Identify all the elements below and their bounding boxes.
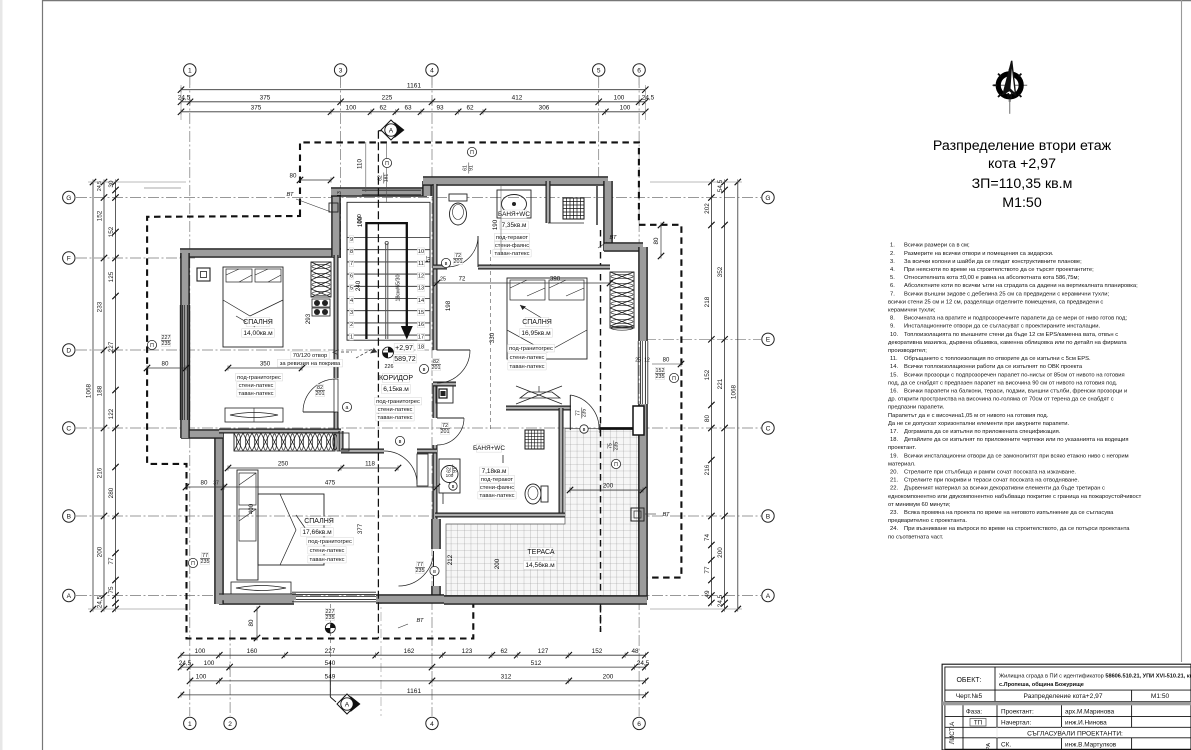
svg-text:200: 200 (717, 547, 724, 558)
svg-text:37: 37 (213, 481, 219, 487)
svg-text:200: 200 (494, 558, 501, 569)
svg-text:227: 227 (325, 648, 336, 655)
svg-text:Начертал:: Начертал: (1001, 720, 1031, 727)
svg-text:A: A (766, 593, 771, 600)
svg-text:9.: 9. (890, 324, 895, 330)
svg-text:72: 72 (442, 423, 448, 429)
svg-text:в: в (452, 484, 455, 490)
svg-text:188: 188 (97, 385, 104, 396)
svg-text:еднокомпонентно или двукомпоне: еднокомпонентно или двукомпонентно набъб… (888, 493, 1142, 500)
svg-text:СЪГЛАСУВАЛИ ПРОЕКТАНТИ:: СЪГЛАСУВАЛИ ПРОЕКТАНТИ: (1027, 730, 1123, 737)
svg-text:13: 13 (337, 191, 343, 197)
svg-text:Всяка промяна на проекта по вр: Всяка промяна на проекта по време на нег… (904, 510, 1114, 516)
svg-text:таван-латекс: таван-латекс (310, 557, 345, 563)
svg-text:Всички инсталационни отвори да: Всички инсталационни отвори да се замоно… (904, 453, 1129, 459)
svg-text:152: 152 (656, 368, 665, 374)
svg-text:4: 4 (430, 67, 434, 74)
svg-text:30: 30 (108, 180, 115, 188)
svg-text:под-гранитогрес: под-гранитогрес (509, 346, 553, 352)
svg-text:всички стени 25 см и 12 см, ра: всички стени 25 см и 12 см, разделящи от… (888, 299, 1103, 305)
svg-text:49: 49 (704, 590, 711, 598)
svg-text:таван-латекс: таван-латекс (495, 251, 530, 257)
svg-text:152: 152 (97, 210, 104, 221)
svg-text:23.: 23. (890, 510, 898, 516)
svg-text:16: 16 (418, 322, 424, 328)
svg-text:24,5: 24,5 (642, 94, 655, 101)
svg-text:6: 6 (350, 273, 353, 279)
svg-text:КОРИДОР: КОРИДОР (379, 375, 413, 382)
svg-text:9: 9 (350, 237, 353, 243)
svg-text:80: 80 (653, 237, 660, 244)
svg-text:ОБЕКТ:: ОБЕКТ: (956, 677, 981, 684)
svg-text:201: 201 (432, 365, 441, 371)
svg-text:керамични тухли;: керамични тухли; (888, 308, 936, 314)
svg-text:4.: 4. (890, 267, 895, 273)
svg-text:Всички прозорци с подпрозорече: Всички прозорци с подпрозоречен парапет … (904, 372, 1125, 378)
svg-text:80: 80 (290, 173, 297, 180)
svg-text:D: D (66, 347, 71, 354)
svg-text:54,5: 54,5 (717, 179, 724, 192)
svg-text:6: 6 (637, 721, 641, 728)
svg-text:Обръщането с топлоизолация по: Обръщането с топлоизолация по отворите д… (904, 356, 1091, 362)
svg-text:72: 72 (455, 253, 461, 259)
svg-text:Височината на вратите и подпро: Височината на вратите и подпрозоречните … (904, 316, 1127, 322)
svg-text:72: 72 (459, 277, 466, 283)
svg-text:250: 250 (278, 461, 289, 468)
svg-text:152: 152 (108, 226, 115, 237)
svg-text:под-гранитогрес: под-гранитогрес (237, 375, 281, 381)
svg-text:10.: 10. (890, 332, 898, 338)
svg-text:РА: РА (986, 743, 992, 750)
svg-text:17: 17 (418, 334, 424, 340)
svg-text:62: 62 (500, 648, 508, 655)
svg-text:Стрелките при стълбища и рампи: Стрелките при стълбища и рампи сочат пос… (904, 470, 1076, 476)
svg-text:235: 235 (582, 409, 588, 418)
svg-text:221: 221 (717, 378, 724, 389)
svg-text:БАНЯ+WC: БАНЯ+WC (498, 211, 530, 218)
svg-text:Парапетът да е с височина1,05: Парапетът да е с височина1,05 м от нивот… (888, 413, 1049, 419)
svg-text:B: B (766, 513, 771, 520)
svg-text:14,56кв.м: 14,56кв.м (525, 562, 555, 569)
svg-text:Дървеният материал за всички д: Дървеният материал за всички декоративни… (904, 486, 1105, 492)
svg-text:B: B (67, 513, 72, 520)
svg-text:160: 160 (247, 648, 258, 655)
svg-text:512: 512 (531, 660, 542, 667)
svg-text:100: 100 (614, 94, 625, 101)
svg-text:П: П (191, 561, 195, 567)
svg-text:100: 100 (195, 648, 206, 655)
svg-text:предпазни парапети.: предпазни парапети. (888, 405, 945, 411)
svg-text:П: П (470, 150, 474, 156)
svg-text:390: 390 (550, 276, 561, 283)
svg-text:Фаза:: Фаза: (966, 709, 982, 716)
svg-text:с.Лропеша, община Божурище: с.Лропеша, община Божурище (999, 681, 1084, 688)
svg-text:227: 227 (162, 335, 171, 341)
svg-text:216: 216 (704, 464, 711, 475)
svg-text:2: 2 (350, 322, 353, 328)
svg-text:21.: 21. (890, 478, 898, 484)
svg-text:227: 227 (326, 609, 335, 615)
svg-text:Размерите на всички отвори и п: Размерите на всички отвори и помещения с… (904, 251, 1054, 257)
svg-text:312: 312 (501, 674, 512, 681)
svg-text:80: 80 (248, 619, 255, 626)
svg-text:235: 235 (416, 568, 425, 574)
svg-text:400: 400 (248, 503, 255, 514)
svg-text:др. открити пространства на ви: др. открити пространства на височина по-… (888, 397, 1114, 403)
svg-text:стени-фаянс: стени-фаянс (495, 243, 529, 249)
svg-text:100: 100 (204, 660, 215, 667)
svg-text:24,5: 24,5 (97, 181, 103, 191)
svg-text:24,5: 24,5 (178, 94, 191, 101)
svg-text:25: 25 (635, 358, 641, 364)
svg-text:Да не се допускат хоризонтални: Да не се допускат хоризонтални елементи … (888, 421, 1070, 427)
svg-text:7,18кв.м: 7,18кв.м (482, 468, 507, 475)
svg-text:24.: 24. (890, 526, 898, 532)
svg-text:инж.В.Мартулков: инж.В.Мартулков (1065, 742, 1117, 749)
svg-text:540: 540 (325, 660, 336, 667)
svg-text:П: П (614, 462, 618, 468)
svg-text:3: 3 (339, 67, 343, 74)
svg-text:218: 218 (704, 296, 711, 307)
svg-text:100: 100 (620, 105, 631, 112)
svg-text:а: а (346, 405, 349, 411)
svg-text:74: 74 (704, 534, 711, 542)
svg-text:293: 293 (305, 313, 312, 324)
svg-text:57: 57 (426, 256, 432, 262)
svg-text:123: 123 (462, 648, 473, 655)
svg-text:в: в (423, 367, 426, 373)
svg-text:7.: 7. (890, 291, 895, 297)
svg-text:Абсолютните коти по всички ъгл: Абсолютните коти по всички ъгли на сград… (904, 283, 1138, 289)
svg-text:арх.М.Маринова: арх.М.Маринова (1065, 709, 1115, 716)
svg-text:93: 93 (436, 105, 444, 112)
svg-text:11.: 11. (890, 356, 898, 362)
svg-text:225: 225 (382, 94, 393, 101)
svg-text:235: 235 (162, 341, 171, 347)
svg-text:1068: 1068 (731, 384, 738, 399)
svg-text:80: 80 (704, 415, 711, 423)
svg-text:280: 280 (108, 487, 115, 498)
svg-text:таван-латекс: таван-латекс (480, 493, 515, 499)
svg-text:БАНЯ+WC: БАНЯ+WC (473, 445, 505, 452)
svg-text:П: П (385, 161, 389, 167)
svg-text:СПАЛНЯ: СПАЛНЯ (243, 319, 273, 326)
svg-text:6,15кв.м: 6,15кв.м (383, 386, 409, 393)
svg-text:201: 201 (441, 429, 450, 435)
svg-text:589,72: 589,72 (394, 356, 416, 363)
svg-text:Разпределение втори етаж: Разпределение втори етаж (933, 138, 1112, 154)
svg-text:декоративна мазилка, дървена о: декоративна мазилка, дървена обшивка, ка… (888, 339, 1127, 346)
svg-text:216: 216 (97, 467, 104, 478)
svg-text:306: 306 (539, 105, 550, 112)
svg-text:7: 7 (350, 261, 353, 267)
svg-text:под-гранитогрес: под-гранитогрес (376, 399, 420, 405)
svg-text:5.: 5. (890, 275, 895, 281)
svg-text:100: 100 (196, 674, 207, 681)
svg-text:под-теракот: под-теракот (481, 477, 514, 483)
svg-text:77: 77 (108, 557, 115, 565)
svg-text:Дограмата да се изпълни по при: Дограмата да се изпълни по приложената с… (904, 429, 1061, 435)
svg-text:1: 1 (188, 67, 192, 74)
svg-text:549: 549 (325, 674, 336, 681)
svg-text:6: 6 (637, 67, 641, 74)
svg-text:12: 12 (644, 358, 650, 364)
svg-text:77: 77 (202, 553, 208, 559)
svg-text:5: 5 (597, 67, 601, 74)
svg-text:181: 181 (384, 174, 390, 183)
svg-text:1.: 1. (890, 243, 895, 249)
svg-text:80: 80 (663, 358, 670, 364)
svg-text:стени-фаянс: стени-фаянс (480, 485, 514, 491)
svg-text:475: 475 (325, 480, 336, 487)
svg-text:стени-латекс: стени-латекс (510, 355, 545, 361)
svg-text:G: G (765, 195, 770, 202)
svg-text:15: 15 (418, 310, 424, 316)
svg-text:235: 235 (614, 442, 620, 451)
svg-text:стени-латекс: стени-латекс (378, 407, 413, 413)
svg-text:ВТ: ВТ (416, 618, 423, 624)
svg-text:1068: 1068 (86, 383, 93, 398)
svg-text:13: 13 (418, 286, 424, 292)
svg-text:18.: 18. (890, 437, 898, 443)
svg-text:75: 75 (108, 586, 115, 594)
svg-text:Детайлите да се изпълнят по пр: Детайлите да се изпълнят по приложените … (904, 436, 1129, 443)
svg-text:82: 82 (317, 385, 323, 391)
svg-text:Всички външни зидове с дебелин: Всички външни зидове с дебелина 25 см са… (904, 291, 1109, 297)
svg-text:152: 152 (704, 369, 711, 380)
svg-text:5: 5 (350, 286, 353, 292)
svg-text:М1:50: М1:50 (1151, 693, 1170, 700)
svg-text:Инсталационните отвори да се с: Инсталационните отвори да се съгласуват … (904, 324, 1101, 330)
svg-text:235: 235 (201, 559, 210, 565)
svg-text:Черт.№5: Черт.№5 (956, 693, 983, 700)
svg-text:в: в (399, 439, 402, 445)
svg-text:91: 91 (469, 165, 475, 171)
svg-text:14,00кв.м: 14,00кв.м (243, 330, 273, 337)
svg-text:в: в (445, 261, 448, 267)
svg-text:При неясноти по време на строи: При неясноти по време на строителството … (904, 267, 1094, 273)
svg-text:ЛИСТ:А: ЛИСТ:А (949, 721, 956, 744)
svg-text:Проектант:: Проектант: (1001, 709, 1034, 716)
svg-text:4: 4 (350, 298, 353, 304)
svg-text:ЗП=110,35 кв.м: ЗП=110,35 кв.м (972, 176, 1073, 192)
svg-text:162: 162 (404, 648, 415, 655)
svg-text:ТЕРАСА: ТЕРАСА (527, 549, 555, 556)
svg-text:202: 202 (704, 203, 711, 214)
svg-text:За всички колони и шайби да се: За всички колони и шайби да се гледат ко… (904, 258, 1082, 265)
svg-text:14: 14 (418, 298, 424, 304)
svg-text:6.: 6. (890, 283, 895, 289)
svg-text:предварително с проектанта.: предварително с проектанта. (888, 518, 967, 524)
svg-text:17,66кв.м: 17,66кв.м (302, 529, 332, 536)
svg-text:СПАЛНЯ: СПАЛНЯ (522, 319, 552, 326)
svg-text:таван-латекс: таван-латекс (378, 415, 413, 421)
svg-text:110: 110 (357, 159, 364, 169)
svg-text:П: П (150, 343, 154, 349)
svg-text:200: 200 (603, 674, 614, 681)
svg-text:Жилищна сграда в ПИ с идентифи: Жилищна сграда в ПИ с идентификатор 5860… (999, 674, 1191, 680)
svg-text:8: 8 (350, 249, 353, 255)
svg-text:2.: 2. (890, 251, 895, 257)
svg-text:198: 198 (445, 300, 452, 311)
svg-text:A: A (67, 593, 72, 600)
svg-text:227: 227 (108, 341, 115, 352)
svg-text:N: N (1007, 91, 1012, 100)
svg-text:ВТ: ВТ (286, 192, 293, 198)
svg-text:П: П (672, 376, 676, 382)
svg-text:10: 10 (418, 249, 424, 255)
svg-text:1161: 1161 (407, 83, 422, 90)
svg-text:стени-латекс: стени-латекс (310, 548, 345, 554)
svg-text:материал.: материал. (888, 461, 916, 467)
svg-text:352: 352 (717, 266, 724, 277)
svg-text:100: 100 (357, 216, 364, 227)
svg-text:190: 190 (492, 219, 499, 230)
svg-text:350: 350 (260, 361, 271, 368)
svg-text:82: 82 (433, 359, 439, 365)
svg-text:22.: 22. (890, 486, 898, 492)
svg-text:проектант.: проектант. (888, 445, 916, 451)
svg-text:91: 91 (453, 467, 459, 473)
svg-text:412: 412 (512, 94, 523, 101)
svg-text:11: 11 (418, 261, 424, 267)
svg-text:1: 1 (350, 334, 353, 340)
svg-text:15.: 15. (890, 372, 898, 378)
svg-text:стени-латекс: стени-латекс (239, 383, 274, 389)
svg-text:по съответната част.: по съответната част. (888, 534, 944, 540)
svg-text:3.: 3. (890, 259, 895, 265)
svg-text:ВТ: ВТ (662, 512, 669, 518)
svg-text:122: 122 (108, 408, 115, 419)
svg-text:12: 12 (418, 273, 424, 279)
svg-text:70/120 отвор: 70/120 отвор (293, 353, 328, 359)
svg-text:При възникване на въпроси по в: При възникване на въпроси по време на ст… (904, 526, 1130, 532)
svg-text:ВТ: ВТ (609, 235, 616, 241)
svg-text:25: 25 (440, 277, 446, 283)
svg-text:G: G (66, 195, 71, 202)
svg-text:20.: 20. (890, 470, 898, 476)
svg-text:А: А (389, 127, 394, 134)
svg-text:235: 235 (326, 615, 335, 621)
svg-text:Относителната кота ±0,00 е рав: Относителната кота ±0,00 е равна на абсо… (904, 275, 1079, 281)
svg-text:таван-латекс: таван-латекс (510, 364, 545, 370)
svg-text:16,95кв.м: 16,95кв.м (521, 330, 551, 337)
svg-text:инж.И.Нинова: инж.И.Нинова (1065, 720, 1107, 727)
svg-text:за ревизия на покрива: за ревизия на покрива (280, 361, 341, 367)
svg-text:80: 80 (201, 480, 208, 487)
svg-text:375: 375 (260, 94, 271, 101)
svg-text:3: 3 (350, 310, 353, 316)
svg-text:E: E (766, 337, 771, 344)
svg-text:1: 1 (188, 721, 192, 728)
svg-text:200: 200 (603, 483, 614, 490)
svg-text:19.: 19. (890, 453, 898, 459)
svg-text:375: 375 (251, 105, 262, 112)
svg-text:7,35кв.м: 7,35кв.м (502, 222, 527, 229)
svg-text:+2,97: +2,97 (395, 345, 413, 352)
svg-text:1161: 1161 (407, 688, 422, 695)
svg-text:212: 212 (447, 554, 454, 565)
svg-text:201: 201 (316, 391, 325, 397)
svg-text:2: 2 (228, 721, 232, 728)
svg-text:таван-латекс: таван-латекс (239, 391, 274, 397)
svg-text:62: 62 (466, 105, 474, 112)
svg-text:16.: 16. (890, 389, 898, 395)
svg-text:200: 200 (97, 546, 104, 557)
svg-text:Всички размери са в см;: Всички размери са в см; (904, 243, 970, 249)
svg-text:127: 127 (538, 648, 549, 655)
svg-text:24,5: 24,5 (97, 595, 104, 608)
svg-text:17.: 17. (890, 429, 898, 435)
svg-text:C: C (766, 425, 771, 432)
svg-text:СК.: СК. (1001, 742, 1011, 749)
svg-text:F: F (67, 255, 71, 262)
svg-text:201: 201 (454, 259, 463, 265)
svg-text:Топлоизолацията по външните ст: Топлоизолацията по външните стени да бъд… (904, 332, 1118, 338)
svg-text:под, да се снабдят с предпазен: под, да се снабдят с предпазен парапет н… (888, 380, 1118, 386)
svg-text:Всички парапети на балкони, те: Всички парапети на балкони, тераси, подз… (904, 389, 1127, 395)
svg-text:в: в (583, 427, 586, 433)
svg-text:4: 4 (430, 721, 434, 728)
svg-text:Всички топлоизолационни работи: Всички топлоизолационни работи да се изп… (904, 364, 1083, 370)
svg-text:152: 152 (592, 648, 603, 655)
svg-text:Стрелките при покриви и тераси: Стрелките при покриви и тераси сочат пос… (904, 478, 1079, 484)
svg-text:А: А (345, 701, 350, 708)
svg-text:Разпределение кота+2,97: Разпределение кота+2,97 (1024, 693, 1103, 700)
svg-text:80: 80 (162, 361, 169, 368)
svg-text:18: 18 (418, 345, 424, 351)
svg-text:235: 235 (656, 374, 665, 380)
svg-text:18см/65/30: 18см/65/30 (396, 274, 402, 301)
svg-text:77: 77 (417, 562, 423, 568)
svg-text:63: 63 (404, 105, 412, 112)
svg-text:125: 125 (108, 271, 115, 282)
svg-text:77: 77 (704, 566, 711, 574)
svg-text:100: 100 (346, 105, 357, 112)
svg-text:118: 118 (365, 461, 375, 468)
svg-text:240: 240 (355, 280, 362, 291)
svg-text:226: 226 (385, 364, 394, 370)
svg-text:24,5: 24,5 (637, 660, 650, 667)
svg-text:330: 330 (489, 332, 496, 343)
svg-text:СПАЛНЯ: СПАЛНЯ (304, 518, 334, 525)
svg-text:в: в (433, 569, 436, 575)
svg-text:от минимум 60 минути;: от минимум 60 минути; (888, 502, 951, 508)
svg-text:48: 48 (631, 648, 639, 655)
svg-text:62: 62 (379, 105, 387, 112)
svg-text:24,5: 24,5 (717, 594, 724, 607)
svg-text:24,5: 24,5 (179, 660, 192, 667)
svg-text:377: 377 (357, 523, 364, 534)
svg-text:14.: 14. (890, 364, 898, 370)
svg-text:М1:50: М1:50 (1002, 195, 1042, 211)
svg-text:8.: 8. (890, 316, 895, 322)
svg-text:под-гранитогрес: под-гранитогрес (308, 539, 352, 545)
svg-text:ТП: ТП (974, 720, 982, 727)
svg-text:C: C (66, 425, 71, 432)
svg-text:233: 233 (97, 301, 104, 312)
svg-text:кота +2,97: кота +2,97 (988, 156, 1056, 172)
svg-text:производител;: производител; (888, 348, 927, 354)
